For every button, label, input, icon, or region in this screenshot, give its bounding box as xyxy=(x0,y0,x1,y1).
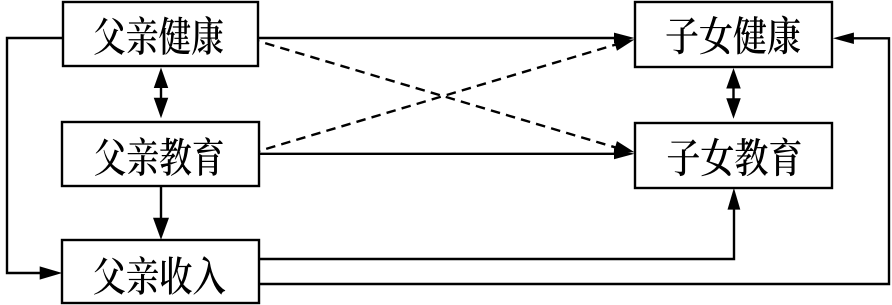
wire dashed arrow 父亲健康 to 子女教育 xyxy=(258,41,636,158)
wire arrow 父亲收入 right around to 子女健康 right xyxy=(259,33,889,284)
box 父亲健康 xyxy=(63,2,258,66)
wire double arrow 父亲健康 and 父亲教育 xyxy=(154,68,169,119)
wire arrow 父亲教育 down to 父亲收入 xyxy=(153,186,169,240)
label 父亲收入 xyxy=(94,256,225,295)
label 父亲教育 xyxy=(95,137,223,176)
label 父亲健康 xyxy=(94,16,223,55)
wire double arrow 子女健康 and 子女教育 xyxy=(726,68,741,119)
box 子女教育 xyxy=(635,123,832,188)
box 父亲教育 xyxy=(62,122,259,186)
label 子女健康 xyxy=(666,16,800,55)
wire solid arrow 父亲教育 to 子女教育 xyxy=(259,148,635,159)
wire solid arrow 父亲健康 to 子女健康 xyxy=(258,33,635,44)
box 子女健康 xyxy=(635,2,832,67)
wire dashed arrow 父亲教育 to 子女健康 xyxy=(259,34,636,151)
wire arrow 父亲健康 left down to 父亲收入 xyxy=(7,38,63,280)
label 子女教育 xyxy=(668,138,801,177)
wire arrow 父亲收入 right up to 子女教育 bottom xyxy=(259,188,740,259)
box 父亲收入 xyxy=(62,240,259,303)
